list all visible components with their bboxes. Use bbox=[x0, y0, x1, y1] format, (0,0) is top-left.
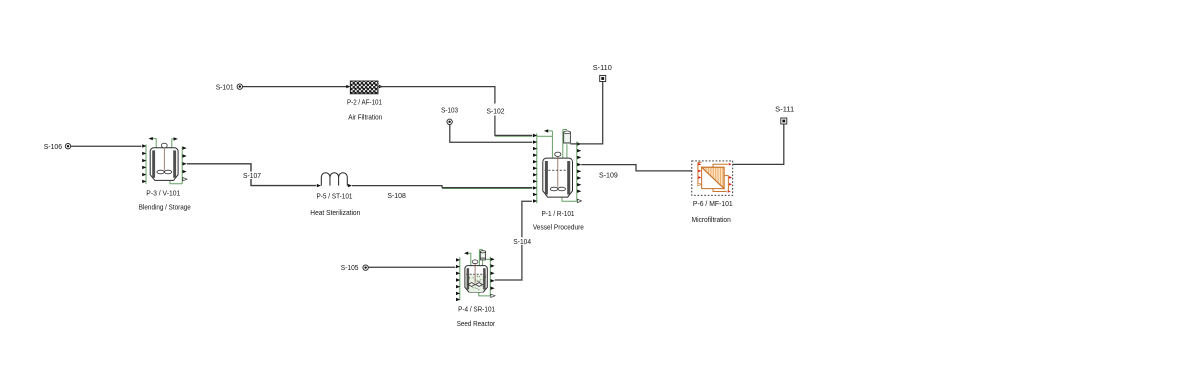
svg-text:S-103: S-103 bbox=[441, 105, 458, 114]
label S-103 bbox=[441, 105, 458, 114]
source S-101 bbox=[237, 84, 242, 89]
microfilter P-6/MF-101 membrane square bbox=[702, 167, 725, 188]
seed reactor P-4/SR-101 top-left stub bbox=[464, 252, 471, 266]
vessel P-1/R-101 body bbox=[543, 158, 573, 197]
wire S-109 bbox=[581, 165, 697, 171]
vessel P-3/V-101 agitator bbox=[157, 143, 172, 174]
label P-2/AF-101 bbox=[347, 98, 382, 107]
svg-text:S-104: S-104 bbox=[513, 237, 531, 246]
svg-text:Blending / Storage: Blending / Storage bbox=[139, 202, 191, 211]
microfilter P-6/MF-101 boundary bbox=[692, 161, 733, 195]
wire S-107 bbox=[187, 164, 316, 186]
label P-1/R-101 bbox=[542, 209, 575, 218]
vessel P-3/V-101 top-left vent stub bbox=[149, 137, 157, 148]
svg-text:S-110: S-110 bbox=[593, 63, 612, 72]
svg-text:S-107: S-107 bbox=[243, 171, 261, 180]
svg-text:S-106: S-106 bbox=[44, 142, 62, 151]
wire S-102 bbox=[495, 116, 533, 137]
label Seed Reactor bbox=[457, 319, 496, 328]
label S-104 bbox=[513, 237, 533, 246]
svg-text:Air Filtration: Air Filtration bbox=[348, 113, 382, 122]
wire S-106 bbox=[71, 145, 142, 147]
label Heat Sterilization bbox=[310, 208, 360, 217]
vessel P-3/V-101 body bbox=[150, 148, 178, 181]
svg-text:P-1 / R-101: P-1 / R-101 bbox=[542, 209, 575, 218]
label S-101 bbox=[216, 82, 234, 91]
wire S-101 out / S-102 bbox=[378, 85, 495, 104]
svg-text:P-5 / ST-101: P-5 / ST-101 bbox=[317, 192, 353, 201]
heat sterilizer P-5/ST-101 bbox=[317, 173, 352, 188]
label Blending / Storage bbox=[139, 202, 191, 211]
svg-text:S-109: S-109 bbox=[599, 171, 618, 180]
seed reactor P-4/SR-101 right port column bbox=[490, 257, 495, 298]
label P-6/MF-101 bbox=[693, 199, 733, 208]
wire S-104 bbox=[495, 201, 532, 280]
label S-111 bbox=[775, 105, 794, 114]
microfilter P-6/MF-101 bottom pipe bbox=[713, 189, 731, 193]
svg-text:Seed Reactor: Seed Reactor bbox=[457, 319, 496, 328]
source S-105 bbox=[363, 265, 368, 270]
air filter P-2/AF-101 bbox=[350, 81, 378, 94]
svg-text:S-101: S-101 bbox=[216, 82, 234, 91]
svg-text:P-3 / V-101: P-3 / V-101 bbox=[146, 188, 180, 197]
source S-106 bbox=[65, 144, 70, 149]
wire S-108 bbox=[352, 186, 532, 189]
label S-106 bbox=[44, 142, 62, 151]
vessel P-1/R-101 liquid level bbox=[545, 169, 572, 171]
svg-text:S-102: S-102 bbox=[487, 107, 505, 116]
microfilter P-6/MF-101 right ports bbox=[724, 176, 732, 192]
terminal S-110 bbox=[600, 76, 606, 82]
vessel P-3/V-101 bottom outlet pipe bbox=[170, 180, 182, 184]
vessel P-1/R-101 left port column bbox=[533, 133, 537, 203]
vessel P-1/R-101 bottom outlet pipe bbox=[562, 197, 577, 202]
svg-text:Vessel Procedure: Vessel Procedure bbox=[533, 223, 584, 232]
svg-text:P-6 / MF-101: P-6 / MF-101 bbox=[693, 199, 733, 208]
label P-3/V-101 bbox=[146, 188, 180, 197]
svg-text:Microfiltration: Microfiltration bbox=[692, 215, 731, 224]
label S-108 bbox=[387, 191, 405, 200]
vessel P-3/V-101 right port column bbox=[182, 146, 187, 183]
label S-110 bbox=[593, 63, 612, 72]
svg-text:S-111: S-111 bbox=[775, 105, 794, 114]
vessel P-1/R-101 agitator bbox=[550, 152, 565, 191]
source S-103 bbox=[447, 119, 452, 124]
label Vessel Procedure bbox=[533, 223, 584, 232]
wire S-105 bbox=[368, 266, 455, 268]
microfilter P-6/MF-101 top pipe bbox=[713, 163, 732, 167]
label S-109 bbox=[599, 171, 618, 180]
label S-102 bbox=[487, 107, 505, 116]
vessel P-3/V-101 left port column bbox=[142, 144, 146, 184]
label Microfiltration bbox=[692, 215, 731, 224]
seed reactor P-4/SR-101 body bbox=[465, 266, 487, 292]
vessel P-3/V-101 top-right stub bbox=[172, 137, 178, 148]
wire S-110 bbox=[570, 82, 602, 144]
label Air Filtration bbox=[348, 113, 382, 122]
svg-text:S-105: S-105 bbox=[341, 263, 359, 272]
seed reactor P-4/SR-101 left port column bbox=[456, 257, 460, 301]
vessel P-1/R-101 top-left port pipe bbox=[537, 129, 553, 158]
svg-text:P-2 / AF-101: P-2 / AF-101 bbox=[347, 98, 382, 107]
microfilter P-6/MF-101 left ports bbox=[698, 162, 702, 186]
svg-text:P-4 / SR-101: P-4 / SR-101 bbox=[458, 305, 495, 314]
label S-107 bbox=[242, 171, 262, 180]
label P-4/SR-101 bbox=[458, 305, 495, 314]
vessel P-1/R-101 right port column bbox=[577, 142, 582, 203]
label P-5/ST-101 bbox=[317, 192, 353, 201]
wire S-111 bbox=[733, 124, 784, 164]
terminal S-111 bbox=[781, 118, 787, 124]
vessel P-1/R-101 vent condenser bbox=[563, 130, 571, 159]
wire S-101 bbox=[243, 85, 351, 88]
wire S-103 bbox=[450, 125, 533, 143]
seed reactor P-4/SR-101 vent condenser bbox=[479, 250, 490, 266]
svg-text:Heat Sterilization: Heat Sterilization bbox=[310, 208, 360, 217]
seed reactor P-4/SR-101 bottom outlet pipe bbox=[479, 292, 491, 296]
svg-text:S-108: S-108 bbox=[387, 191, 405, 200]
seed reactor P-4/SR-101 agitator bbox=[468, 260, 482, 287]
label S-105 bbox=[341, 263, 359, 272]
